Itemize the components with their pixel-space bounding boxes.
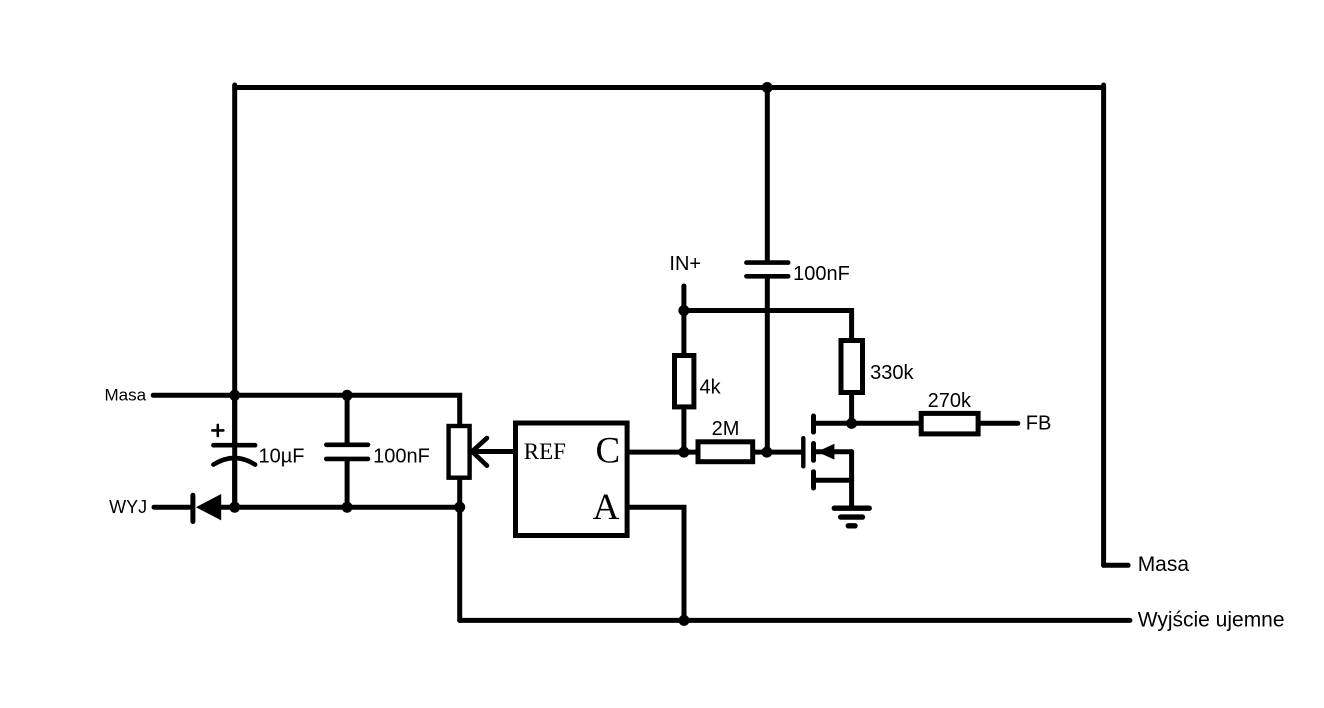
svg-text:FB: FB xyxy=(1026,413,1052,435)
junction dot diode node xyxy=(229,502,240,513)
wire A pin to bottom rail xyxy=(630,507,684,620)
capacitor C2 100nF xyxy=(326,395,368,507)
wire pot node to bottom rail xyxy=(457,507,462,620)
wire bottom rail Wyjscie ujemne xyxy=(460,618,1130,623)
wire bottom-left rail xyxy=(235,505,460,510)
wire right Masa lead xyxy=(1104,563,1129,568)
svg-text:WYJ: WYJ xyxy=(109,497,147,517)
svg-text:330k: 330k xyxy=(870,362,914,384)
resistor R2 330k xyxy=(841,341,863,424)
wire IN+ rail to 330k xyxy=(684,311,852,339)
capacitor C4 100nF top xyxy=(746,88,788,453)
op-amp U1 TL431 box xyxy=(516,423,628,536)
wire drain rail xyxy=(814,421,919,426)
junction dot C4 bottom xyxy=(761,447,772,458)
wire WYJ lead xyxy=(154,505,190,510)
svg-text:REF: REF xyxy=(524,439,566,464)
svg-text:100nF: 100nF xyxy=(373,446,430,468)
svg-text:A: A xyxy=(593,487,620,528)
svg-text:10µF: 10µF xyxy=(259,446,305,468)
wire Masa left rail xyxy=(153,395,460,424)
resistor R3 2M xyxy=(698,442,753,462)
junction dot pot bottom xyxy=(454,502,465,513)
junction dot A pin x bottom rail xyxy=(679,615,690,626)
svg-text:270k: 270k xyxy=(928,390,972,412)
svg-text:2M: 2M xyxy=(712,418,740,440)
svg-text:Masa: Masa xyxy=(105,386,147,405)
wire IN+ stub xyxy=(681,286,686,311)
svg-text:Masa: Masa xyxy=(1138,553,1190,576)
wire top rail xyxy=(235,85,1104,90)
resistor R4 270k xyxy=(921,413,1018,434)
wire left rail xyxy=(232,85,237,507)
junction dot IN+ xyxy=(678,305,689,316)
wire C pin to 2M xyxy=(630,450,696,455)
capacitor C1 10uF (polarized) xyxy=(212,395,255,507)
svg-text:IN+: IN+ xyxy=(669,253,701,275)
wire right rail xyxy=(1101,85,1106,565)
junction dot Masa x C2 xyxy=(342,390,353,401)
diode D1 xyxy=(193,494,235,522)
junction dot top rail x C4 xyxy=(762,82,773,93)
svg-text:Wyjście ujemne: Wyjście ujemne xyxy=(1138,609,1285,632)
svg-text:C: C xyxy=(596,431,621,472)
junction dot Masa x left rail xyxy=(229,390,240,401)
junction dot 330k bottom x drain xyxy=(846,418,857,429)
wire 2M to gate xyxy=(755,450,801,455)
svg-text:4k: 4k xyxy=(700,376,722,398)
potentiometer RV1 xyxy=(449,426,513,507)
ground xyxy=(834,508,869,526)
svg-text:100nF: 100nF xyxy=(793,263,850,285)
junction dot C2 bottom xyxy=(342,502,353,513)
junction dot 4k bottom xyxy=(678,447,689,458)
resistor R1 4k xyxy=(675,311,694,453)
transistor Q1 N-MOSFET xyxy=(803,416,851,505)
